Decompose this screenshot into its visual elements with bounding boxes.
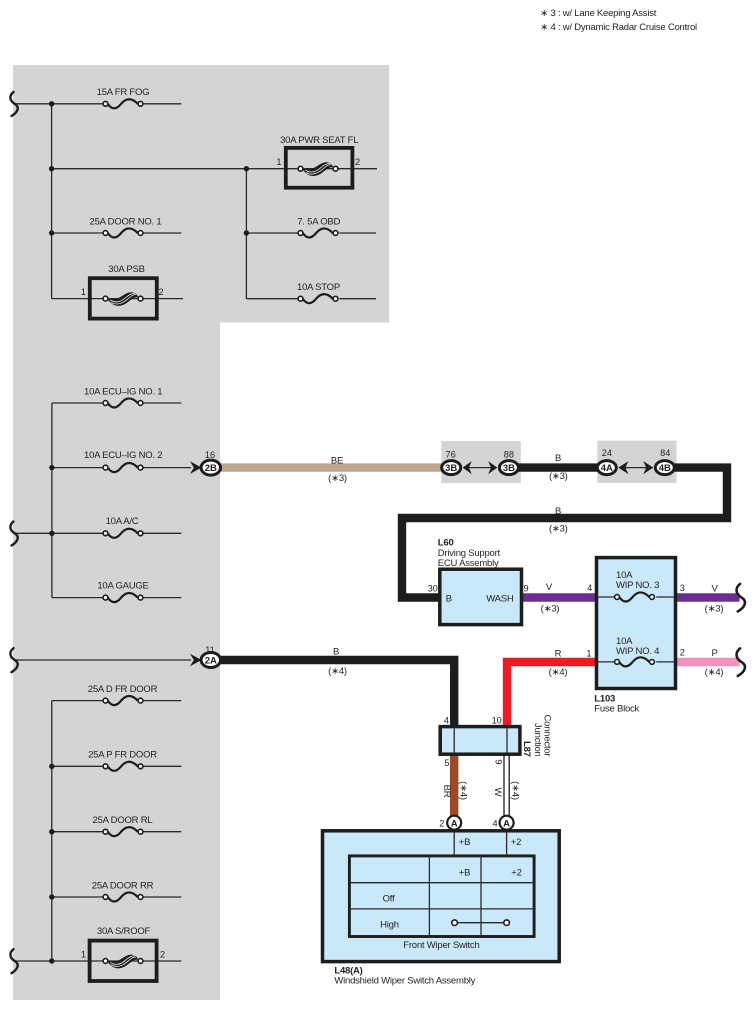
svg-text:+2: +2 xyxy=(511,837,521,848)
svg-text:10A ECU–IG NO. 2: 10A ECU–IG NO. 2 xyxy=(84,450,162,461)
svg-text:76: 76 xyxy=(445,450,455,460)
svg-text:High: High xyxy=(380,920,399,931)
svg-text:7. 5A OBD: 7. 5A OBD xyxy=(297,216,340,227)
svg-text:∗ 4 : w/ Dynamic Radar Cruise: ∗ 4 : w/ Dynamic Radar Cruise Control xyxy=(540,22,697,33)
svg-text:Junction: Junction xyxy=(532,723,543,757)
svg-text:Connector: Connector xyxy=(542,715,553,757)
svg-text:1: 1 xyxy=(276,157,281,167)
svg-text:BE: BE xyxy=(331,455,343,466)
svg-text:4B: 4B xyxy=(659,463,671,474)
svg-text:(∗4): (∗4) xyxy=(457,781,468,800)
svg-text:WIP NO. 4: WIP NO. 4 xyxy=(616,646,659,657)
svg-text:(∗4): (∗4) xyxy=(510,781,521,800)
svg-text:WASH: WASH xyxy=(486,593,514,604)
svg-text:25A DOOR RL: 25A DOOR RL xyxy=(93,815,153,826)
svg-text:(∗4): (∗4) xyxy=(549,667,568,678)
svg-text:W: W xyxy=(492,788,503,797)
svg-text:A: A xyxy=(503,818,510,829)
svg-text:∗ 3 : w/ Lane Keeping Assist: ∗ 3 : w/ Lane Keeping Assist xyxy=(540,8,656,19)
svg-text:Front Wiper Switch: Front Wiper Switch xyxy=(403,940,479,951)
svg-text:10: 10 xyxy=(492,715,502,725)
svg-text:24: 24 xyxy=(602,448,612,458)
svg-text:25A DOOR RR: 25A DOOR RR xyxy=(92,880,154,891)
svg-text:Off: Off xyxy=(383,894,395,905)
svg-text:A: A xyxy=(451,818,458,829)
svg-text:+B: +B xyxy=(459,868,470,879)
svg-text:B: B xyxy=(333,647,339,658)
svg-text:(∗3): (∗3) xyxy=(705,604,724,615)
svg-text:30A S/ROOF: 30A S/ROOF xyxy=(97,926,151,937)
svg-text:4: 4 xyxy=(444,715,449,725)
svg-text:(∗3): (∗3) xyxy=(549,471,568,482)
svg-text:+B: +B xyxy=(459,837,470,848)
svg-text:4: 4 xyxy=(587,583,592,593)
svg-text:(∗3): (∗3) xyxy=(541,604,560,615)
svg-text:R: R xyxy=(555,649,562,660)
svg-text:+2: +2 xyxy=(511,868,521,879)
svg-text:Windshield Wiper Switch Assemb: Windshield Wiper Switch Assembly xyxy=(334,976,475,987)
svg-text:10A A/C: 10A A/C xyxy=(106,516,139,527)
svg-text:10A STOP: 10A STOP xyxy=(297,282,340,293)
svg-text:B: B xyxy=(555,453,561,464)
svg-text:16: 16 xyxy=(205,450,215,460)
svg-text:5: 5 xyxy=(444,758,449,768)
svg-text:4: 4 xyxy=(492,819,497,829)
svg-text:(∗4): (∗4) xyxy=(328,666,347,677)
svg-text:9: 9 xyxy=(524,584,529,594)
svg-text:3B: 3B xyxy=(445,463,457,474)
svg-text:4A: 4A xyxy=(601,463,613,474)
svg-text:1: 1 xyxy=(81,287,86,297)
svg-text:30A PWR SEAT FL: 30A PWR SEAT FL xyxy=(280,135,358,146)
svg-text:2: 2 xyxy=(680,648,685,658)
svg-text:2: 2 xyxy=(160,949,165,959)
svg-text:V: V xyxy=(711,584,718,595)
svg-text:(∗3): (∗3) xyxy=(549,523,568,534)
svg-text:9: 9 xyxy=(494,759,504,764)
svg-text:2: 2 xyxy=(159,287,164,297)
svg-text:2: 2 xyxy=(439,819,444,829)
svg-text:10A GAUGE: 10A GAUGE xyxy=(97,581,148,592)
svg-text:25A DOOR NO. 1: 25A DOOR NO. 1 xyxy=(90,216,162,227)
svg-text:BR: BR xyxy=(441,785,452,798)
svg-text:1: 1 xyxy=(81,949,86,959)
svg-text:2B: 2B xyxy=(205,463,217,474)
svg-text:2: 2 xyxy=(355,157,360,167)
svg-text:(∗4): (∗4) xyxy=(705,667,724,678)
svg-text:L87: L87 xyxy=(521,741,532,757)
svg-text:30A PSB: 30A PSB xyxy=(108,264,145,275)
svg-text:84: 84 xyxy=(660,448,670,458)
svg-text:11: 11 xyxy=(205,645,215,655)
svg-text:1: 1 xyxy=(586,649,591,659)
svg-text:B: B xyxy=(446,593,452,604)
svg-text:P: P xyxy=(711,648,717,659)
svg-text:10A ECU–IG NO. 1: 10A ECU–IG NO. 1 xyxy=(84,386,162,397)
svg-text:WIP NO. 3: WIP NO. 3 xyxy=(616,580,659,591)
svg-text:ECU Assembly: ECU Assembly xyxy=(438,558,499,569)
svg-text:B: B xyxy=(555,506,561,517)
svg-text:25A D FR DOOR: 25A D FR DOOR xyxy=(88,684,158,695)
svg-text:V: V xyxy=(546,582,553,593)
svg-text:15A FR FOG: 15A FR FOG xyxy=(97,87,150,98)
svg-text:30: 30 xyxy=(428,584,438,594)
svg-text:88: 88 xyxy=(504,450,514,460)
svg-text:L60: L60 xyxy=(438,537,454,548)
svg-text:3: 3 xyxy=(680,583,685,593)
svg-text:(∗3): (∗3) xyxy=(328,473,347,484)
svg-text:25A P FR DOOR: 25A P FR DOOR xyxy=(88,750,157,761)
svg-text:2A: 2A xyxy=(205,656,217,667)
svg-text:Fuse Block: Fuse Block xyxy=(594,703,639,714)
svg-text:3B: 3B xyxy=(503,463,515,474)
